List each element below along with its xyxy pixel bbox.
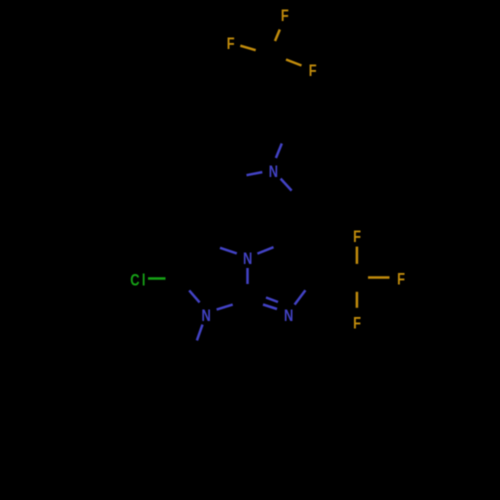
bond N4(bridgehead)-C5, N half [220, 248, 237, 254]
svg-text:N: N [202, 308, 211, 326]
bond N(amine)-CH3 left, N half [247, 172, 263, 175]
bond C(CF3 right)-F bottom, F half [356, 292, 359, 308]
bond N4(bridgehead)-C3, N half [257, 247, 273, 253]
atom label Cl [130, 272, 145, 290]
bond C(CF3 top)-F top, F half [275, 30, 280, 42]
bond C(CF3 right)-F right, F half [368, 276, 390, 279]
bond C6-Cl, Cl half [148, 277, 166, 280]
bond N(amine)-CH2 down-right, N half [281, 179, 292, 191]
svg-text:F: F [227, 36, 235, 54]
svg-text:F: F [281, 8, 289, 26]
bond N(amine)-CH2 up, N half [276, 144, 282, 159]
bond C(CF3 top)-F right, F half [286, 60, 302, 66]
svg-text:F: F [309, 63, 317, 81]
bond N7-CH3, N half [197, 325, 203, 341]
svg-text:F: F [353, 229, 361, 247]
bond N4(bridgehead)-C7a, N half [246, 268, 249, 284]
bond N7-C7a, N half [217, 305, 233, 310]
bond N7-C6, N half [189, 290, 199, 302]
bond C(CF3 right)-F top, F half [356, 247, 359, 264]
bond C(CF3 top)-F left, F half [240, 46, 255, 51]
svg-text:F: F [353, 315, 361, 333]
svg-text:N: N [284, 308, 293, 326]
svg-text:N: N [243, 251, 252, 269]
svg-text:N: N [269, 164, 278, 182]
svg-text:C: C [130, 272, 140, 290]
bond N1-C2, N half [295, 290, 306, 304]
double bond C7a=N1 main line, N half [263, 305, 277, 310]
double bond C7a=N1 inner line, N half [266, 298, 278, 303]
svg-text:l: l [142, 272, 146, 290]
svg-text:F: F [397, 271, 405, 289]
